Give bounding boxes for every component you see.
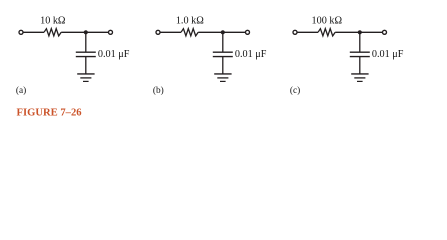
wire input to resistor xyxy=(298,31,319,33)
svg-text:(c): (c) xyxy=(290,85,300,96)
svg-text:(a): (a) xyxy=(16,85,26,96)
svg-text:100 kΩ: 100 kΩ xyxy=(312,16,343,27)
wire junction to capacitor xyxy=(222,32,224,52)
svg-text:1.0 kΩ: 1.0 kΩ xyxy=(176,16,204,27)
capacitor 0.01 uF xyxy=(350,52,370,56)
node output terminal (b) xyxy=(246,30,250,34)
wire resistor to output terminal xyxy=(61,31,108,33)
node output terminal (c) xyxy=(383,30,387,34)
capacitor 0.01 uF xyxy=(76,52,96,56)
wire junction to capacitor xyxy=(359,32,361,52)
node input terminal (c) xyxy=(293,30,297,34)
wire input to resistor xyxy=(24,31,45,33)
resistor 1.0 kΩ xyxy=(181,29,198,36)
junction dot xyxy=(221,30,225,34)
wire input to resistor xyxy=(161,31,182,33)
svg-text:0.01 μF: 0.01 μF xyxy=(372,49,404,60)
wire junction to capacitor xyxy=(85,32,87,52)
node output terminal (a) xyxy=(109,30,113,34)
wire capacitor to ground xyxy=(359,57,361,74)
svg-text:0.01 μF: 0.01 μF xyxy=(98,49,130,60)
wire capacitor to ground xyxy=(222,57,224,74)
svg-text:0.01 μF: 0.01 μF xyxy=(235,49,267,60)
svg-text:FIGURE 7–26: FIGURE 7–26 xyxy=(17,108,82,119)
svg-text:10 kΩ: 10 kΩ xyxy=(40,16,66,27)
node input terminal (b) xyxy=(156,30,160,34)
junction dot xyxy=(84,30,88,34)
svg-text:(b): (b) xyxy=(153,85,164,96)
wire resistor to output terminal xyxy=(335,31,382,33)
capacitor 0.01 uF xyxy=(213,52,233,56)
resistor 10 kΩ xyxy=(44,29,61,36)
wire resistor to output terminal xyxy=(198,31,245,33)
ground xyxy=(214,74,231,82)
node input terminal (a) xyxy=(19,30,23,34)
resistor 100 kΩ xyxy=(318,29,335,36)
junction dot xyxy=(358,30,362,34)
wire capacitor to ground xyxy=(85,57,87,74)
ground xyxy=(77,74,94,82)
ground xyxy=(351,74,368,82)
